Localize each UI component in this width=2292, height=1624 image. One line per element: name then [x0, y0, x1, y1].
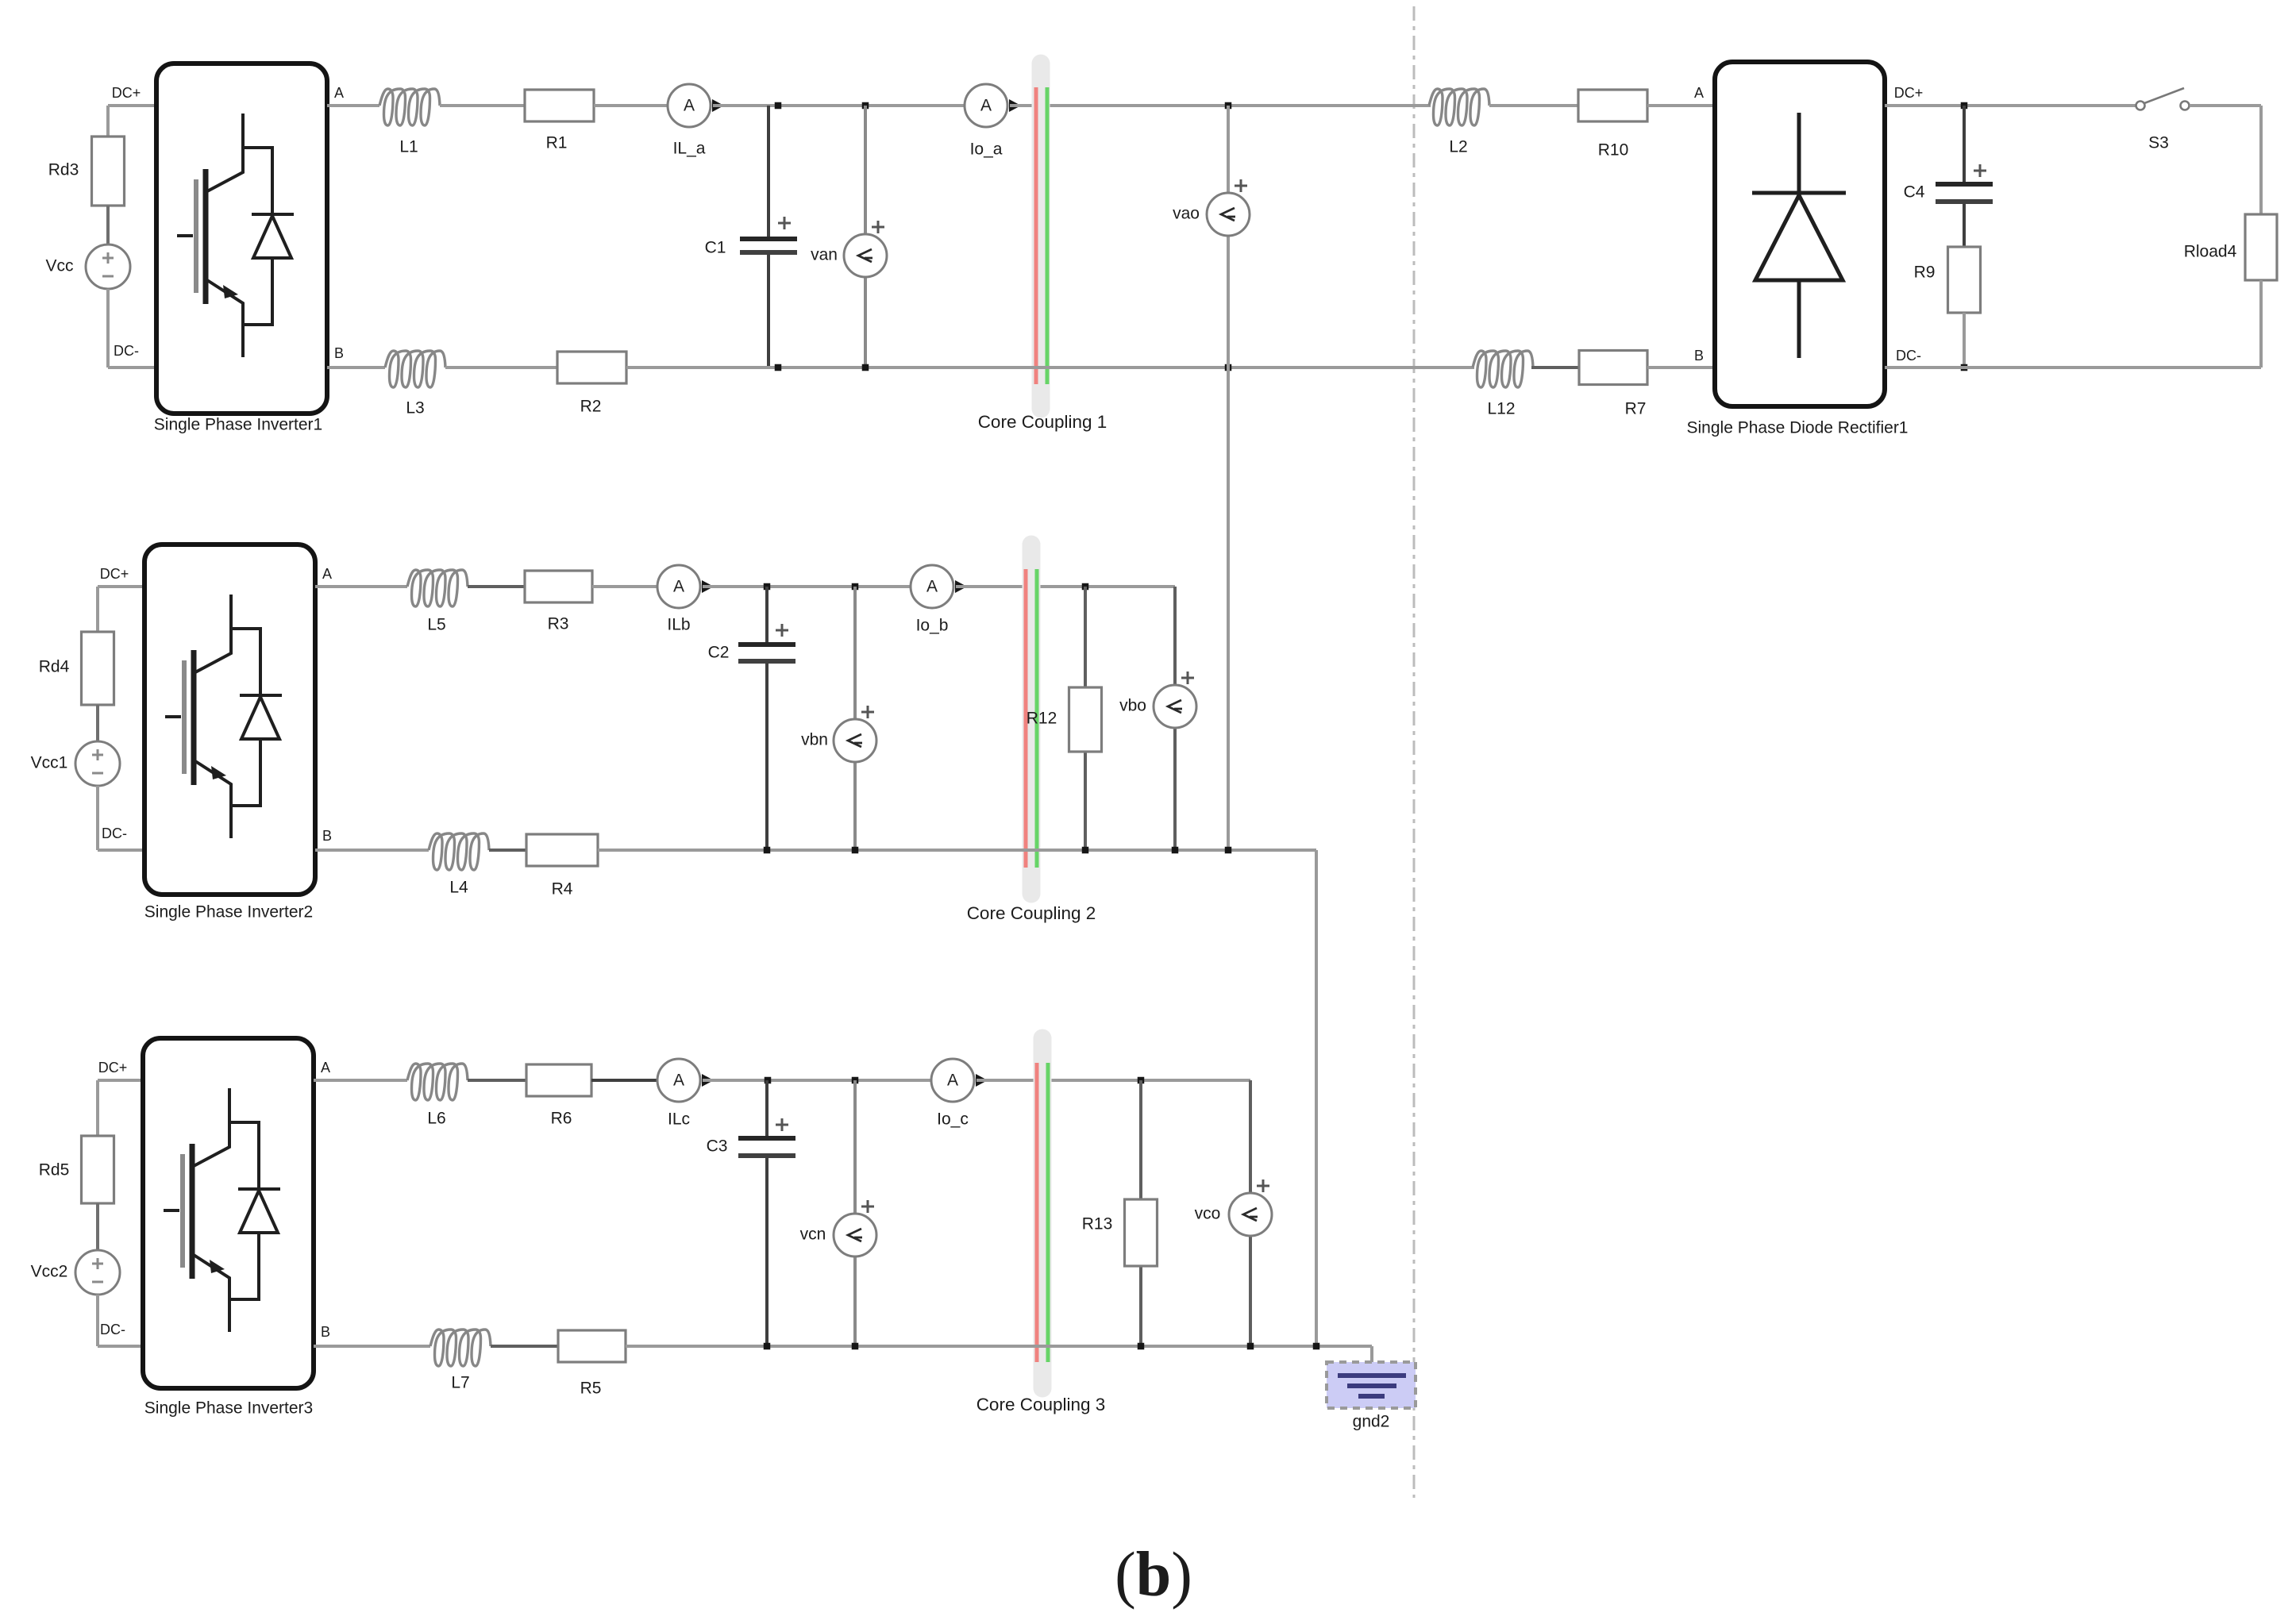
port label B (rectifier) — [1694, 348, 1704, 364]
plus sign C2 — [776, 624, 788, 637]
wire: L4 to R4 — [489, 849, 526, 852]
svg-text:S3: S3 — [2148, 134, 2169, 152]
ammeter ILb — [657, 565, 714, 608]
capacitor C1 — [740, 106, 797, 368]
label C4 — [1904, 183, 1925, 202]
svg-text:vcn: vcn — [800, 1226, 826, 1244]
voltmeter van branch wire — [864, 106, 867, 368]
wire: inverter3 A to L6 — [314, 1079, 407, 1082]
source Vcc — [86, 244, 130, 289]
voltmeter vao branch wire — [1227, 106, 1230, 850]
label Rload4 — [2184, 243, 2237, 261]
label C2 — [708, 644, 730, 662]
core coupling 1 red line — [1034, 87, 1038, 384]
junction node C4 top — [1961, 102, 1968, 110]
core coupling 1 halo — [1032, 63, 1050, 409]
inductor L2 — [1429, 89, 1489, 125]
resistor R12 branch wire — [1084, 587, 1087, 850]
wire: Vcc1 to DC- rail — [98, 786, 144, 850]
junction node C1 top — [775, 102, 782, 110]
port label DC- (inverter2) — [102, 825, 127, 841]
capacitor C3 — [738, 1080, 795, 1346]
block: Single Phase Inverter3 — [143, 1038, 314, 1388]
svg-text:Rd3: Rd3 — [48, 161, 79, 179]
junction node R13 bottom — [1138, 1343, 1145, 1350]
label R7 — [1625, 400, 1647, 418]
label R12 — [1027, 710, 1057, 728]
block: Single Phase Diode Rectifier1 — [1715, 62, 1885, 406]
label L2 — [1449, 138, 1467, 156]
label Core Coupling 2 — [967, 903, 1096, 923]
wire: S3 to Rload4 top — [2190, 106, 2261, 214]
svg-text:A: A — [1694, 85, 1704, 101]
svg-text:DC+: DC+ — [100, 566, 129, 582]
wire: Vcc to DC- rail — [108, 289, 156, 368]
label Io_c — [937, 1110, 969, 1129]
wire: inverter2 A to L5 — [315, 585, 407, 588]
caption (b) — [1115, 1540, 1192, 1610]
resistor R12 — [1069, 687, 1102, 752]
port label DC+ (inverter3) — [98, 1060, 128, 1076]
svg-text:Vcc: Vcc — [45, 257, 73, 275]
wire: L6 to R6 — [468, 1079, 526, 1082]
wire: Io_b through core coupling 2 to vbo corner — [956, 585, 1175, 588]
svg-text:R2: R2 — [580, 398, 602, 416]
label R2 — [580, 398, 602, 416]
wire: L1 to R1 — [440, 104, 525, 107]
label Vcc1 — [31, 754, 68, 772]
svg-text:Single Phase Inverter3: Single Phase Inverter3 — [144, 1399, 313, 1418]
svg-text:gnd2: gnd2 — [1353, 1413, 1390, 1431]
svg-text:Rd4: Rd4 — [39, 658, 70, 676]
svg-text:Core Coupling 2: Core Coupling 2 — [967, 903, 1096, 923]
wire: L12 to R7 — [1531, 366, 1579, 369]
junction node van top — [862, 102, 869, 110]
resistor R13 branch wire — [1139, 1080, 1142, 1346]
port label A (inverter2) — [322, 566, 332, 582]
svg-text:C2: C2 — [708, 644, 730, 662]
junction node R12 bottom — [1082, 847, 1089, 854]
inductor L3 — [385, 351, 445, 387]
junction node vao top — [1225, 102, 1232, 110]
inductor L4 — [429, 833, 489, 870]
plus sign vbn — [861, 706, 874, 718]
port label DC- (inverter1) — [114, 343, 139, 359]
svg-text:R7: R7 — [1625, 400, 1647, 418]
svg-text:L3: L3 — [406, 399, 424, 418]
plus sign vcn — [861, 1200, 874, 1213]
resistor R1 — [525, 90, 594, 121]
wire: Vcc2 to DC- rail — [98, 1295, 143, 1346]
svg-text:DC-: DC- — [114, 343, 139, 359]
wire: R9 to DC- rail — [1963, 313, 1966, 368]
junction node van bottom — [862, 364, 869, 371]
svg-text:R12: R12 — [1027, 710, 1057, 728]
resistor R5 — [558, 1330, 626, 1362]
svg-text:R3: R3 — [548, 615, 569, 633]
label R1 — [546, 134, 568, 152]
core coupling 3 red line — [1035, 1063, 1039, 1362]
junction node row2 drop — [1313, 1343, 1320, 1350]
port label DC+ (rectifier) — [1894, 85, 1924, 101]
label Io_b — [916, 617, 949, 635]
svg-text:A: A — [321, 1060, 330, 1076]
label Core Coupling 1 — [978, 412, 1107, 432]
core coupling 2 green line — [1035, 569, 1039, 868]
voltmeter vbo branch wire — [1173, 587, 1177, 850]
junction node C2 top — [764, 583, 771, 591]
wire: L5 to R3 — [468, 585, 525, 588]
wire: ILc to Io_c — [703, 1079, 931, 1082]
label R4 — [552, 880, 573, 899]
svg-text:R4: R4 — [552, 880, 573, 899]
label R3 — [548, 615, 569, 633]
plus sign C1 — [778, 217, 791, 229]
resistor Rd4 — [82, 632, 114, 705]
label Rd4 — [39, 658, 70, 676]
wire: L7 to R5 — [491, 1345, 558, 1348]
wire: inverter3 B to L7 — [314, 1345, 430, 1348]
svg-text:Core Coupling 3: Core Coupling 3 — [977, 1395, 1106, 1414]
label Vcc — [45, 257, 73, 275]
label L1 — [399, 138, 418, 156]
junction node vbn top — [852, 583, 859, 591]
wire: ILb to Io_b — [703, 585, 911, 588]
plus sign van — [872, 221, 884, 233]
junction node vbo bottom — [1172, 847, 1179, 854]
wire: R4 to row2 bottom-right corner — [598, 850, 1316, 1346]
wire: R5 to gnd2 corner — [626, 1346, 1372, 1374]
voltmeter vao — [1207, 193, 1250, 236]
svg-text:Vcc2: Vcc2 — [31, 1263, 68, 1281]
label Io_a — [970, 140, 1003, 159]
wire: Rd5 to Vcc2 — [96, 1203, 99, 1250]
wire: Rd3 to Vcc — [106, 206, 110, 244]
wire: R1 to ammeter IL_a — [594, 104, 668, 107]
svg-text:DC+: DC+ — [1894, 85, 1924, 101]
label Single Phase Diode Rectifier1 — [1687, 419, 1909, 437]
svg-text:vbn: vbn — [801, 731, 828, 749]
label R5 — [580, 1380, 602, 1398]
junction node vco bottom — [1247, 1343, 1254, 1350]
core coupling 2 red line — [1024, 569, 1028, 868]
junction node vcn top — [852, 1077, 859, 1084]
svg-text:R13: R13 — [1082, 1215, 1113, 1233]
plus sign C3 — [776, 1118, 788, 1131]
junction node vcn bottom — [852, 1343, 859, 1350]
label L6 — [427, 1110, 445, 1128]
svg-text:Single Phase Inverter1: Single Phase Inverter1 — [154, 416, 322, 434]
svg-text:L12: L12 — [1487, 400, 1515, 418]
svg-text:DC-: DC- — [100, 1322, 125, 1337]
resistor Rd3 — [92, 137, 125, 206]
voltmeter vcn — [834, 1214, 876, 1256]
junction node vao bottom row2 — [1225, 847, 1232, 854]
svg-text:C3: C3 — [707, 1137, 728, 1156]
svg-text:vbo: vbo — [1119, 697, 1146, 715]
svg-text:B: B — [334, 345, 344, 361]
svg-text:ILb: ILb — [667, 616, 690, 634]
label vcn — [800, 1226, 826, 1244]
wire: row3 DC+ from Vcc2 loop to inverter3 — [98, 1080, 143, 1136]
wire: rectifier DC+ rail to switch S3 — [1885, 104, 2136, 107]
label L4 — [449, 879, 468, 897]
voltmeter van — [844, 234, 887, 277]
wire: inverter1 A to L1 — [327, 104, 379, 107]
label Single Phase Inverter2 — [144, 903, 313, 922]
ammeter Io_b — [911, 565, 967, 608]
label Vcc2 — [31, 1263, 68, 1281]
wire: R3 to ammeter ILb — [592, 585, 657, 588]
svg-text:DC-: DC- — [1896, 348, 1921, 364]
port label B (inverter1) — [334, 345, 344, 361]
ammeter IL_a — [668, 84, 724, 127]
svg-text:Io_a: Io_a — [970, 140, 1003, 159]
svg-text:C1: C1 — [705, 239, 726, 257]
label L7 — [451, 1374, 469, 1392]
port label DC- (rectifier) — [1896, 348, 1921, 364]
label vco — [1195, 1205, 1221, 1223]
resistor R9 — [1948, 247, 1981, 313]
voltmeter vbo — [1154, 685, 1196, 728]
wire: row1 DC+ from Vcc loop to inverter1 — [108, 106, 156, 137]
resistor R6 — [526, 1064, 591, 1096]
svg-text:L7: L7 — [451, 1374, 469, 1392]
label van — [811, 246, 838, 264]
svg-text:DC-: DC- — [102, 825, 127, 841]
svg-text:B: B — [321, 1324, 330, 1340]
svg-text:Rd5: Rd5 — [39, 1161, 70, 1180]
label IL_a — [673, 140, 706, 158]
svg-text:Single Phase Diode Rectifier1: Single Phase Diode Rectifier1 — [1687, 419, 1909, 437]
label S3 — [2148, 134, 2169, 152]
port label A (rectifier) — [1694, 85, 1704, 101]
svg-text:R9: R9 — [1914, 264, 1936, 282]
junction node vao row1 bottom — [1225, 364, 1232, 371]
label R10 — [1598, 141, 1629, 160]
junction node R12 top — [1082, 583, 1089, 591]
block: Single Phase Inverter1 — [156, 63, 327, 414]
svg-text:L2: L2 — [1449, 138, 1467, 156]
svg-text:A: A — [980, 97, 992, 115]
plus sign C4 — [1974, 164, 1986, 177]
plus sign vco — [1257, 1180, 1269, 1192]
resistor Rload4 — [2245, 214, 2277, 280]
voltmeter vcn branch wire — [853, 1080, 857, 1346]
core coupling 1 green line — [1046, 87, 1050, 384]
svg-text:DC+: DC+ — [112, 85, 141, 101]
wire: Rd4 to Vcc1 — [96, 705, 99, 741]
junction node R9 bottom — [1961, 364, 1968, 371]
voltmeter vbn branch wire — [853, 587, 857, 850]
svg-text:vao: vao — [1173, 205, 1200, 223]
port label A (inverter1) — [334, 85, 344, 101]
switch S3 — [2136, 88, 2190, 110]
wire: Io_c through core coupling 3 to vco corner — [977, 1079, 1250, 1082]
svg-text:L6: L6 — [427, 1110, 445, 1128]
label vao — [1173, 205, 1200, 223]
plus sign vbo — [1181, 672, 1194, 684]
svg-text:A: A — [926, 578, 938, 596]
ammeter Io_a — [965, 84, 1021, 127]
core coupling 2 halo — [1023, 545, 1041, 894]
svg-text:(b): (b) — [1115, 1540, 1192, 1610]
inductor L12 — [1473, 351, 1533, 387]
svg-text:Rload4: Rload4 — [2184, 243, 2237, 261]
resistor Rd5 — [82, 1136, 114, 1203]
core coupling 3 green line — [1046, 1063, 1050, 1362]
wire: row2 DC+ from Vcc1 loop to inverter2 — [98, 587, 144, 632]
wire: R10 to rectifier A — [1647, 104, 1715, 107]
svg-text:R5: R5 — [580, 1380, 602, 1398]
wire: L2 to R10 — [1489, 104, 1578, 107]
junction node C3 bottom — [764, 1343, 771, 1350]
svg-text:DC+: DC+ — [98, 1060, 128, 1076]
ammeter Io_c — [931, 1059, 988, 1102]
svg-text:L4: L4 — [449, 879, 468, 897]
capacitor C4 — [1936, 106, 1993, 247]
label R9 — [1914, 264, 1936, 282]
svg-text:Io_b: Io_b — [916, 617, 949, 635]
label Rd5 — [39, 1161, 70, 1180]
resistor R7 — [1579, 351, 1647, 385]
source Vcc1 — [75, 741, 120, 786]
svg-text:vco: vco — [1195, 1205, 1221, 1223]
junction node C2 bottom — [764, 847, 771, 854]
wire: L3 to R2 — [445, 366, 557, 369]
wire: Io_a through core coupling to L2 — [1010, 104, 1431, 107]
resistor R4 — [526, 834, 598, 866]
label R13 — [1082, 1215, 1113, 1233]
svg-text:L5: L5 — [427, 616, 445, 634]
wire: Rload4 bottom to rectifier DC- — [1885, 280, 2261, 368]
core coupling 3 halo — [1034, 1038, 1052, 1388]
voltmeter vbn — [834, 719, 876, 762]
label vbn — [801, 731, 828, 749]
wire: IL_a arrow to Io_a with junctions — [713, 104, 965, 107]
svg-text:R6: R6 — [551, 1110, 572, 1128]
svg-text:A: A — [673, 578, 684, 596]
svg-text:van: van — [811, 246, 838, 264]
wire: R6 to ammeter ILc — [591, 1079, 657, 1082]
port label DC- (inverter3) — [100, 1322, 125, 1337]
svg-text:B: B — [1694, 348, 1704, 364]
svg-text:R1: R1 — [546, 134, 568, 152]
label R6 — [551, 1110, 572, 1128]
label ILb — [667, 616, 690, 634]
junction node C1 bottom — [775, 364, 782, 371]
junction node C3 top — [765, 1077, 772, 1084]
junction node vbn bottom — [852, 847, 859, 854]
label gnd2 — [1353, 1413, 1390, 1431]
inductor L1 — [379, 89, 440, 125]
label L5 — [427, 616, 445, 634]
resistor R10 — [1578, 90, 1647, 121]
svg-text:R10: R10 — [1598, 141, 1629, 160]
ammeter ILc — [657, 1059, 714, 1102]
port label DC+ (inverter2) — [100, 566, 129, 582]
inductor L6 — [407, 1064, 468, 1100]
svg-text:Core Coupling 1: Core Coupling 1 — [978, 412, 1107, 432]
wire: R2 through core coupling to L12 — [626, 366, 1474, 369]
resistor R2 — [557, 352, 626, 383]
wire: inverter2 B to L4 — [315, 849, 429, 852]
label L12 — [1487, 400, 1515, 418]
svg-text:A: A — [334, 85, 344, 101]
svg-text:L1: L1 — [399, 138, 418, 156]
svg-text:A: A — [684, 97, 695, 115]
plus sign vao — [1235, 179, 1247, 192]
svg-text:A: A — [947, 1072, 958, 1090]
label vbo — [1119, 697, 1146, 715]
block: Single Phase Inverter2 — [144, 545, 315, 895]
svg-text:B: B — [322, 828, 332, 844]
label Rd3 — [48, 161, 79, 179]
voltmeter vco — [1229, 1193, 1272, 1236]
svg-text:A: A — [673, 1072, 684, 1090]
svg-text:ILc: ILc — [668, 1110, 690, 1129]
label C1 — [705, 239, 726, 257]
svg-text:C4: C4 — [1904, 183, 1925, 202]
label Single Phase Inverter3 — [144, 1399, 313, 1418]
wire: R7 to rectifier B — [1647, 366, 1715, 369]
inductor L7 — [430, 1330, 491, 1366]
wire: inverter1 B to L3 — [327, 366, 385, 369]
svg-text:Vcc1: Vcc1 — [31, 754, 68, 772]
resistor R13 — [1125, 1199, 1158, 1266]
port label DC+ (inverter1) — [112, 85, 141, 101]
label L3 — [406, 399, 424, 418]
voltmeter vco branch wire — [1249, 1080, 1252, 1346]
ground gnd2 — [1327, 1362, 1416, 1408]
label Core Coupling 3 — [977, 1395, 1106, 1414]
port label A (inverter3) — [321, 1060, 330, 1076]
inductor L5 — [407, 570, 468, 606]
label C3 — [707, 1137, 728, 1156]
svg-text:Single Phase Inverter2: Single Phase Inverter2 — [144, 903, 313, 922]
svg-text:Io_c: Io_c — [937, 1110, 969, 1129]
label ILc — [668, 1110, 690, 1129]
dash-dot separator line — [1413, 6, 1416, 1498]
port label B (inverter2) — [322, 828, 332, 844]
resistor R3 — [525, 571, 592, 602]
junction node R13 top — [1138, 1077, 1145, 1084]
svg-text:IL_a: IL_a — [673, 140, 706, 158]
svg-text:A: A — [322, 566, 332, 582]
port label B (inverter3) — [321, 1324, 330, 1340]
capacitor C2 — [738, 587, 795, 850]
label Single Phase Inverter1 — [154, 416, 322, 434]
source Vcc2 — [75, 1250, 120, 1295]
